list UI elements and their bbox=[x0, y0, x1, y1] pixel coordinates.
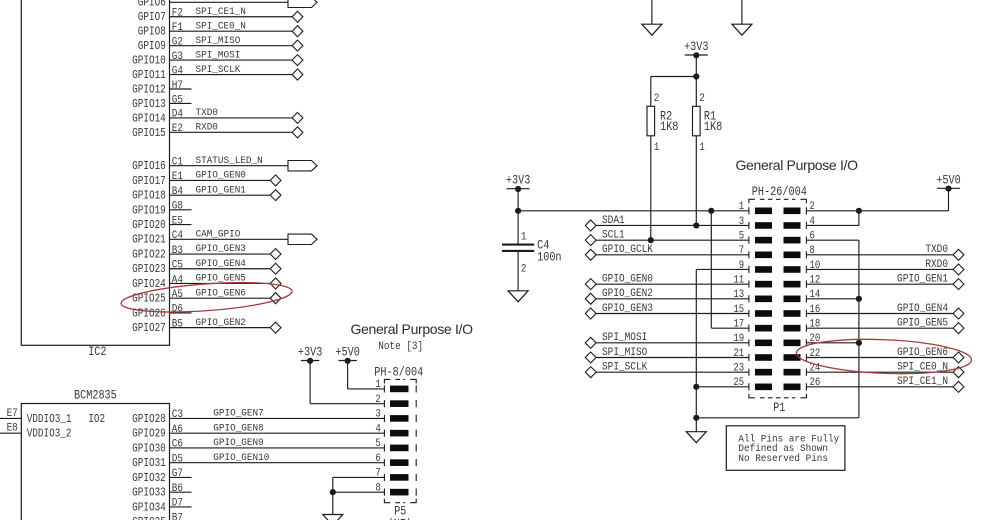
wire R1 to SDA1 bbox=[695, 136, 697, 226]
svg-text:A6: A6 bbox=[172, 423, 183, 436]
P1 pin 10 bbox=[784, 260, 821, 273]
svg-text:P1: P1 bbox=[773, 402, 785, 415]
svg-text:3: 3 bbox=[375, 409, 380, 421]
junction R2/SCL1 bbox=[648, 237, 654, 243]
svg-text:GPIO31: GPIO31 bbox=[132, 457, 166, 470]
svg-text:C3: C3 bbox=[172, 409, 183, 422]
svg-text:GPIO34: GPIO34 bbox=[132, 501, 166, 514]
junction pin14 bbox=[856, 296, 862, 302]
svg-text:GPIO_GEN9: GPIO_GEN9 bbox=[213, 437, 263, 449]
net SPI_MISO to P1 pin 21 bbox=[585, 348, 749, 363]
svg-text:SPI_CE1_N: SPI_CE1_N bbox=[196, 6, 246, 18]
IC2 pin E2 GPIO15 / net RXD0 bbox=[132, 121, 303, 140]
svg-text:GPIO_GEN3: GPIO_GEN3 bbox=[196, 243, 246, 255]
svg-text:7: 7 bbox=[375, 468, 380, 480]
svg-text:GPIO6: GPIO6 bbox=[138, 0, 166, 10]
P1 pin 21 bbox=[733, 348, 772, 361]
svg-text:GPIO_GEN4: GPIO_GEN4 bbox=[897, 304, 948, 316]
svg-text:1: 1 bbox=[654, 141, 660, 154]
P1 pin 24 bbox=[784, 363, 821, 376]
net SDA1 to P1 pin 3 bbox=[585, 215, 749, 230]
svg-text:100n: 100n bbox=[537, 252, 561, 265]
svg-text:GPIO35: GPIO35 bbox=[132, 516, 166, 520]
svg-text:GPIO33: GPIO33 bbox=[132, 487, 166, 500]
svg-text:E1: E1 bbox=[172, 171, 183, 184]
capacitor C4 100n bbox=[502, 231, 562, 276]
junction P5 ground bbox=[330, 489, 336, 495]
IC2 pin C5 GPIO23 / net GPIO_GEN4 bbox=[132, 258, 281, 277]
svg-text:1: 1 bbox=[521, 231, 527, 244]
svg-text:G5: G5 bbox=[172, 94, 183, 107]
svg-text:PH-8/004: PH-8/004 bbox=[374, 367, 423, 380]
svg-text:VDDIO3_2: VDDIO3_2 bbox=[27, 428, 72, 441]
svg-text:GPIO13: GPIO13 bbox=[132, 98, 166, 111]
P1 pin 18 bbox=[784, 319, 821, 332]
wire R1 pin2 stub bbox=[695, 77, 697, 107]
P5 pin 8 bbox=[375, 483, 408, 496]
svg-text:A5: A5 bbox=[172, 288, 183, 301]
net GPIO_GEN2 to P1 pin 13 bbox=[585, 289, 749, 304]
wire P1 pin 9 to ground bus bbox=[696, 269, 749, 417]
svg-text:G2: G2 bbox=[172, 36, 183, 49]
svg-text:6: 6 bbox=[375, 453, 380, 465]
power symbol P1 +5V0 bbox=[936, 175, 961, 192]
svg-text:2: 2 bbox=[375, 394, 380, 406]
svg-text:2: 2 bbox=[521, 263, 527, 276]
ground stub (right, from cropped top) bbox=[732, 0, 752, 35]
svg-text:SPI_CE0_N: SPI_CE0_N bbox=[196, 20, 246, 32]
IC2 pin ? GPIO6 bbox=[138, 0, 317, 10]
P1 pin 13 bbox=[733, 289, 772, 302]
junction ground tee bbox=[693, 415, 699, 421]
net TXD0 to P1 pin 8 bbox=[806, 245, 964, 260]
P1 pin 20 bbox=[784, 333, 821, 346]
svg-text:B5: B5 bbox=[172, 318, 183, 331]
IO2 pin E8 VDDIO3_2 bbox=[0, 422, 72, 441]
svg-text:C4: C4 bbox=[537, 240, 549, 253]
svg-text:5: 5 bbox=[739, 231, 744, 243]
svg-text:C1: C1 bbox=[172, 156, 183, 169]
P1 pin 2 bbox=[784, 201, 815, 214]
svg-text:B3: B3 bbox=[172, 244, 183, 257]
IC2 pin G3 GPIO10 / net SPI_MOSI bbox=[132, 49, 303, 68]
P5 pin 1 bbox=[375, 379, 408, 392]
svg-text:8: 8 bbox=[375, 483, 380, 495]
svg-text:22: 22 bbox=[810, 348, 821, 360]
net SPI_SCLK to P1 pin 23 bbox=[585, 362, 749, 377]
IC2 pin B3 GPIO22 / net GPIO_GEN3 bbox=[132, 243, 281, 262]
connector P5 dashed outline bbox=[384, 379, 416, 502]
IC IC2 (BCM2835 GPIO bank, box cropped at top) bbox=[21, 0, 169, 345]
svg-text:SPI_MOSI: SPI_MOSI bbox=[196, 49, 241, 61]
svg-text:E5: E5 bbox=[172, 215, 183, 228]
IC2 pin H7 GPIO12 bbox=[132, 79, 191, 97]
resistor R2 1K8 bbox=[647, 92, 678, 154]
svg-text:G8: G8 bbox=[172, 200, 183, 213]
svg-text:G7: G7 bbox=[172, 468, 183, 481]
svg-text:C4: C4 bbox=[172, 229, 183, 242]
svg-text:B4: B4 bbox=[172, 185, 183, 198]
svg-text:1: 1 bbox=[699, 141, 705, 154]
svg-text:IO2: IO2 bbox=[88, 413, 105, 426]
svg-text:G4: G4 bbox=[172, 65, 183, 78]
wire +3V3 to P5 pin 2 bbox=[310, 361, 384, 404]
wire down to pin 17 bbox=[711, 211, 749, 328]
svg-text:General Purpose I/O: General Purpose I/O bbox=[736, 157, 859, 173]
svg-text:E8: E8 bbox=[7, 422, 18, 435]
P1 pin 26 bbox=[784, 378, 821, 391]
wire P5 pin 8 to ground junction bbox=[333, 491, 385, 493]
IO2 pin C6 GPIO30 / net GPIO_GEN9 bbox=[132, 437, 384, 456]
wire +3V3 junction down to C4 bbox=[517, 211, 519, 244]
svg-text:GPIO10: GPIO10 bbox=[132, 55, 166, 68]
svg-text:RXD0: RXD0 bbox=[196, 121, 218, 133]
power symbol P5 +5V0 bbox=[335, 347, 360, 364]
svg-text:19: 19 bbox=[733, 333, 744, 345]
svg-text:10: 10 bbox=[810, 260, 821, 272]
IO2 pin D5 GPIO31 / net GPIO_GEN10 bbox=[132, 451, 384, 470]
svg-text:General Purpose I/O: General Purpose I/O bbox=[351, 321, 474, 337]
IC2 pin B5 GPIO27 / net GPIO_GEN2 bbox=[132, 316, 281, 335]
svg-text:GPIO_GEN5: GPIO_GEN5 bbox=[897, 318, 948, 330]
wire +5V0 to P5 pin 1 bbox=[348, 361, 385, 389]
svg-text:A4: A4 bbox=[172, 274, 183, 287]
svg-text:17: 17 bbox=[733, 319, 744, 331]
svg-text:GPIO15: GPIO15 bbox=[132, 127, 166, 140]
wire P5 pin 7 to ground bbox=[333, 477, 385, 514]
svg-text:PH-26/004: PH-26/004 bbox=[752, 186, 807, 199]
net GPIO_GEN6 to P1 pin 22 bbox=[806, 348, 964, 363]
net GPIO_GEN5 to P1 pin 18 bbox=[806, 318, 964, 333]
svg-text:GPIO_GEN7: GPIO_GEN7 bbox=[213, 407, 263, 419]
svg-text:GPIO21: GPIO21 bbox=[132, 234, 166, 247]
net GPIO_GEN0 to P1 pin 11 bbox=[585, 274, 749, 289]
svg-text:GPIO19: GPIO19 bbox=[132, 204, 166, 217]
P1 pin 4 bbox=[784, 216, 815, 229]
IC2 pin A5 GPIO25 / net GPIO_GEN6 bbox=[132, 287, 281, 306]
IC2 pin C4 GPIO21 / net CAM_GPIO bbox=[132, 228, 317, 247]
note box: All Pins are Fully Defined as Shown / No Reserved Pins bbox=[726, 426, 845, 471]
svg-text:26: 26 bbox=[810, 378, 821, 390]
P1 pin 6 bbox=[784, 231, 815, 244]
P1 pin 9 bbox=[739, 260, 772, 273]
svg-text:RXD0: RXD0 bbox=[925, 259, 948, 271]
svg-text:CAM_GPIO: CAM_GPIO bbox=[196, 228, 241, 240]
IO2 pin A6 GPIO29 / net GPIO_GEN8 bbox=[132, 422, 384, 441]
IO2 pin E7 VDDIO3_1 bbox=[0, 407, 72, 426]
ground stub (left, from cropped top) bbox=[642, 0, 662, 35]
svg-text:5: 5 bbox=[375, 438, 380, 450]
svg-text:GPIO_GEN1: GPIO_GEN1 bbox=[897, 274, 948, 286]
svg-text:G3: G3 bbox=[172, 50, 183, 63]
svg-text:E7: E7 bbox=[7, 407, 18, 420]
P1 pin 17 bbox=[733, 319, 772, 332]
svg-text:11: 11 bbox=[733, 275, 744, 287]
svg-text:P5: P5 bbox=[394, 506, 406, 519]
P5 pin 2 bbox=[375, 394, 408, 407]
P1 pin 8 bbox=[784, 245, 815, 258]
svg-text:2: 2 bbox=[810, 201, 815, 213]
junction pin25/ground bus bbox=[693, 384, 699, 390]
svg-text:9: 9 bbox=[739, 260, 744, 272]
P5 pin 3 bbox=[375, 409, 408, 422]
svg-text:4: 4 bbox=[375, 424, 380, 436]
junction R1/SDA1 bbox=[693, 222, 699, 228]
wire +5V0 to P1 pin 2 bbox=[806, 189, 948, 211]
svg-text:12: 12 bbox=[810, 275, 821, 287]
svg-text:21: 21 bbox=[733, 348, 744, 360]
P1 pin 22 bbox=[784, 348, 821, 361]
svg-text:F2: F2 bbox=[172, 7, 183, 20]
svg-text:GPIO_GEN2: GPIO_GEN2 bbox=[196, 316, 246, 328]
svg-text:D4: D4 bbox=[172, 108, 183, 121]
P5 pin 7 bbox=[375, 468, 408, 481]
svg-text:GPIO29: GPIO29 bbox=[132, 428, 166, 441]
connector P1 dashed outline bbox=[749, 199, 807, 397]
net GPIO_GEN1 to P1 pin 12 bbox=[806, 274, 964, 289]
wire +3V3 down to R1/R2 branch bbox=[695, 55, 697, 76]
net GPIO_GCLK to P1 pin 7 bbox=[585, 245, 749, 260]
svg-text:SPI_SCLK: SPI_SCLK bbox=[196, 63, 241, 75]
svg-text:GPIO32: GPIO32 bbox=[132, 472, 166, 485]
svg-text:D5: D5 bbox=[172, 453, 183, 466]
power symbol P5 +3V3 bbox=[298, 347, 323, 364]
svg-text:1K8: 1K8 bbox=[660, 121, 678, 134]
wire P1 pin 25 to ground bus bbox=[696, 386, 749, 388]
P1 pin 23 bbox=[733, 363, 772, 376]
svg-text:GPIO26: GPIO26 bbox=[132, 307, 166, 320]
svg-text:3: 3 bbox=[739, 216, 744, 228]
net SCL1 to P1 pin 5 bbox=[585, 230, 749, 245]
svg-text:1: 1 bbox=[375, 379, 380, 391]
svg-text:TXD0: TXD0 bbox=[925, 245, 948, 257]
P1 pin 19 bbox=[733, 333, 772, 346]
P1 pin 25 bbox=[733, 378, 772, 391]
wire ground drop bbox=[695, 418, 697, 432]
svg-text:BCM2835: BCM2835 bbox=[74, 390, 117, 403]
svg-text:D7: D7 bbox=[172, 497, 183, 510]
P1 pin 16 bbox=[784, 304, 821, 317]
svg-text:GPIO_GEN1: GPIO_GEN1 bbox=[196, 184, 246, 196]
red annotation ellipse around GPIO25 / GPIO_GEN6 bbox=[120, 278, 293, 317]
svg-text:No Reserved Pins: No Reserved Pins bbox=[738, 453, 828, 465]
svg-text:2: 2 bbox=[654, 92, 660, 105]
svg-text:16: 16 bbox=[810, 304, 821, 316]
svg-text:GPIO18: GPIO18 bbox=[132, 190, 166, 203]
red annotation ellipse around P1 pin 22 GPIO_GEN6 bbox=[796, 336, 973, 377]
IO2 pin B6 GPIO33 bbox=[132, 482, 191, 500]
net GPIO_GEN3 to P1 pin 15 bbox=[585, 304, 749, 319]
svg-text:GPIO_GEN6: GPIO_GEN6 bbox=[196, 287, 246, 299]
svg-text:4: 4 bbox=[810, 216, 815, 228]
wire ground bus to pin6 riser bbox=[696, 240, 859, 418]
IO2 pin B7 GPIO35 bbox=[132, 512, 191, 520]
svg-text:H7: H7 bbox=[172, 79, 183, 92]
junction +3V3 / C4 bbox=[515, 208, 521, 214]
IC2 pin C1 GPIO16 / net STATUS_LED_N bbox=[132, 154, 317, 173]
net SPI_CE0_N to P1 pin 24 bbox=[806, 362, 964, 377]
net RXD0 to P1 pin 10 bbox=[806, 259, 964, 274]
svg-text:18: 18 bbox=[810, 319, 821, 331]
ground below P5 bbox=[323, 515, 343, 520]
svg-text:GPIO17: GPIO17 bbox=[132, 175, 166, 188]
P1 pin 15 bbox=[733, 304, 772, 317]
svg-text:GPIO11: GPIO11 bbox=[132, 69, 166, 82]
IC2 pin F2 GPIO7 / net SPI_CE1_N bbox=[138, 6, 303, 25]
P1 pin 12 bbox=[784, 275, 821, 288]
svg-text:E2: E2 bbox=[172, 122, 183, 135]
svg-text:15: 15 bbox=[733, 304, 744, 316]
svg-text:GPIO8: GPIO8 bbox=[138, 26, 166, 39]
wire P1 pin 20 to ground riser bbox=[806, 342, 859, 344]
svg-text:TXD0: TXD0 bbox=[196, 107, 218, 119]
svg-text:23: 23 bbox=[733, 363, 744, 375]
resistor R1 1K8 bbox=[693, 92, 723, 154]
P1 pin 1 bbox=[739, 201, 772, 214]
P1 pin 11 bbox=[733, 275, 772, 288]
wire to P1 pin 4 bbox=[806, 211, 859, 226]
power symbol +3V3 above R1/R2 bbox=[684, 41, 709, 58]
svg-text:GPIO28: GPIO28 bbox=[132, 413, 166, 426]
wire +3V3 down bbox=[517, 189, 519, 211]
svg-text:IC2: IC2 bbox=[88, 346, 106, 359]
svg-text:GPIO12: GPIO12 bbox=[132, 83, 166, 96]
svg-text:25: 25 bbox=[733, 378, 744, 390]
svg-text:GPIO_GEN0: GPIO_GEN0 bbox=[196, 169, 246, 181]
svg-text:2: 2 bbox=[699, 92, 705, 105]
svg-text:GPIO16: GPIO16 bbox=[132, 160, 166, 173]
IC2 pin G2 GPIO9 / net SPI_MISO bbox=[138, 34, 303, 53]
svg-text:GPIO_GEN6: GPIO_GEN6 bbox=[897, 348, 948, 360]
ground below P1 bbox=[686, 432, 706, 443]
IC2 pin E5 GPIO20 bbox=[132, 215, 191, 233]
IC2 pin D6 GPIO26 bbox=[132, 303, 191, 321]
svg-text:GPIO_GEN10: GPIO_GEN10 bbox=[213, 451, 269, 463]
svg-text:GPIO27: GPIO27 bbox=[132, 322, 166, 335]
svg-text:SPI_MISO: SPI_MISO bbox=[196, 34, 241, 46]
power symbol P1 +3V3 bbox=[506, 175, 531, 192]
P5 pin 6 bbox=[375, 453, 408, 466]
wire R2 to SCL1 bbox=[650, 136, 652, 240]
IO2 pin G7 GPIO32 bbox=[132, 468, 191, 486]
svg-text:B7: B7 bbox=[172, 512, 183, 520]
svg-text:GPIO14: GPIO14 bbox=[132, 112, 166, 125]
IO2 pin C3 GPIO28 / net GPIO_GEN7 bbox=[132, 407, 384, 426]
svg-text:1K8: 1K8 bbox=[704, 121, 722, 134]
svg-text:13: 13 bbox=[733, 289, 744, 301]
svg-text:VDDIO3_1: VDDIO3_1 bbox=[27, 413, 72, 426]
svg-text:GPIO23: GPIO23 bbox=[132, 263, 166, 276]
IC2 pin F1 GPIO8 / net SPI_CE0_N bbox=[138, 20, 303, 39]
svg-text:C5: C5 bbox=[172, 259, 183, 272]
svg-text:D6: D6 bbox=[172, 303, 183, 316]
ground below C4 bbox=[508, 291, 528, 302]
svg-text:STATUS_LED_N: STATUS_LED_N bbox=[196, 154, 263, 166]
P1 pin 7 bbox=[739, 245, 772, 258]
IC2 pin G4 GPIO11 / net SPI_SCLK bbox=[132, 63, 303, 82]
IC IO2 (BCM2835, box cropped at bottom) bbox=[21, 404, 169, 520]
svg-text:SPI_CE1_N: SPI_CE1_N bbox=[897, 377, 948, 389]
net GPIO_GEN4 to P1 pin 16 bbox=[806, 304, 964, 319]
IC2 pin G8 GPIO19 bbox=[132, 200, 191, 218]
svg-text:Note [3]: Note [3] bbox=[378, 340, 423, 353]
junction R1/R2 branch bbox=[693, 73, 699, 79]
svg-text:GPIO20: GPIO20 bbox=[132, 219, 166, 232]
P5 pin 4 bbox=[375, 424, 408, 437]
svg-text:14: 14 bbox=[810, 289, 821, 301]
svg-text:GPIO30: GPIO30 bbox=[132, 442, 166, 455]
P1 pin 14 bbox=[784, 289, 821, 302]
IC2 pin G5 GPIO13 bbox=[132, 94, 191, 112]
svg-text:7: 7 bbox=[739, 245, 744, 257]
svg-text:GPIO9: GPIO9 bbox=[138, 40, 166, 53]
IC2 pin E1 GPIO17 / net GPIO_GEN0 bbox=[132, 169, 281, 188]
svg-text:GPIO22: GPIO22 bbox=[132, 248, 166, 261]
svg-text:6: 6 bbox=[810, 231, 815, 243]
P1 pin 5 bbox=[739, 231, 772, 244]
wire +3V3 rail to P1 pin 1 bbox=[518, 210, 749, 212]
junction pin1 / pin17 feed bbox=[708, 208, 714, 214]
junction pin20 bbox=[856, 340, 862, 346]
IC2 pin D4 GPIO14 / net TXD0 bbox=[132, 107, 303, 126]
svg-text:B6: B6 bbox=[172, 482, 183, 495]
svg-text:C6: C6 bbox=[172, 438, 183, 451]
svg-text:GPIO_GEN8: GPIO_GEN8 bbox=[213, 422, 263, 434]
svg-text:GPIO_GEN4: GPIO_GEN4 bbox=[196, 258, 246, 270]
IO2 pin D7 GPIO34 bbox=[132, 497, 191, 515]
svg-text:8: 8 bbox=[810, 245, 815, 257]
net SPI_MOSI to P1 pin 19 bbox=[585, 333, 749, 348]
wire branch to R2 bbox=[651, 77, 697, 107]
net SPI_CE1_N to P1 pin 26 bbox=[806, 377, 964, 392]
wire C4 to ground bbox=[517, 252, 519, 291]
svg-text:1: 1 bbox=[739, 201, 744, 213]
IC2 pin B4 GPIO18 / net GPIO_GEN1 bbox=[132, 184, 281, 203]
IC2 pin A4 GPIO24 / net GPIO_GEN5 bbox=[132, 272, 281, 291]
P1 pin 3 bbox=[739, 216, 772, 229]
svg-text:F1: F1 bbox=[172, 21, 183, 34]
svg-text:GPIO7: GPIO7 bbox=[138, 11, 166, 24]
P5 pin 5 bbox=[375, 438, 408, 451]
junction pin2/pin4 bbox=[856, 208, 862, 214]
wire P1 pin 14 to ground riser bbox=[806, 298, 859, 300]
